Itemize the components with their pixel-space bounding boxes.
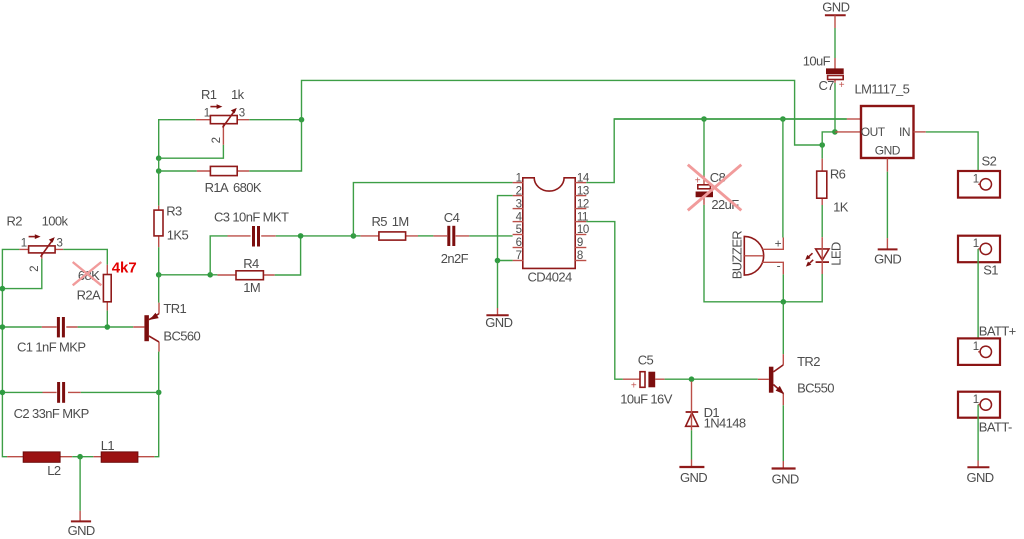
wire R5 stub <box>353 235 360 237</box>
wire R4 right up <box>275 236 301 275</box>
pin 9 stub <box>575 247 586 249</box>
svg-text:GND: GND <box>772 471 799 486</box>
svg-text:+: + <box>631 381 637 392</box>
pin 4 stub <box>513 221 524 223</box>
node junction C3-R4 <box>298 233 304 239</box>
svg-text:3: 3 <box>239 107 245 119</box>
svg-text:C5: C5 <box>638 352 654 367</box>
pin 11 stub <box>575 221 586 223</box>
svg-text:C8: C8 <box>710 170 726 185</box>
ground CD4024 <box>486 308 508 315</box>
svg-text:+: + <box>839 80 845 91</box>
svg-text:1M: 1M <box>243 280 260 295</box>
svg-text:100k: 100k <box>42 214 69 229</box>
wire R2 pin3 to R2A <box>63 249 107 264</box>
wire pin14 to rail <box>586 119 847 183</box>
wire C7 to OUT junction <box>834 83 836 132</box>
node junction R1 pin3 <box>299 117 305 123</box>
svg-text:BC550: BC550 <box>797 381 834 396</box>
node junction LED top <box>819 142 825 148</box>
svg-text:BATT-: BATT- <box>979 419 1012 434</box>
svg-text:BATT+: BATT+ <box>979 324 1016 339</box>
svg-text:R6: R6 <box>830 166 846 181</box>
wire pin7 to ground <box>497 261 499 309</box>
wire LM1117 gnd pin <box>886 158 888 249</box>
svg-text:LM1117_5: LM1117_5 <box>855 82 910 97</box>
wire top rail <box>302 80 823 145</box>
svg-text:2n2F: 2n2F <box>441 251 469 266</box>
node junction C1 left <box>0 324 5 330</box>
node junction R3-TR1 <box>156 272 162 278</box>
wire R5 to C4 <box>418 235 433 237</box>
svg-text:R1A: R1A <box>205 180 229 195</box>
op-amp U1 CD4024 body <box>523 178 575 269</box>
svg-text:1: 1 <box>973 394 979 406</box>
wire R1A right up <box>249 120 301 171</box>
capacitor C5 <box>623 372 665 392</box>
wire left rail to R3 <box>158 158 160 205</box>
wire R1 pin2 branch <box>159 145 224 159</box>
svg-text:680K: 680K <box>233 180 262 195</box>
svg-text:R3: R3 <box>166 204 182 219</box>
svg-text:+: + <box>775 236 782 250</box>
pin 3 stub <box>513 208 524 210</box>
svg-text:GND: GND <box>822 0 849 15</box>
svg-text:CD4024: CD4024 <box>528 270 572 285</box>
pin 10 stub <box>575 234 586 236</box>
svg-text:3: 3 <box>516 198 522 210</box>
transistor TR2 <box>758 354 784 405</box>
inductor L2 <box>7 452 72 462</box>
svg-text:+: + <box>695 175 701 186</box>
svg-text:13: 13 <box>577 185 589 197</box>
svg-text:6: 6 <box>516 237 522 249</box>
wire R6 top <box>821 145 823 159</box>
ground TR2 <box>772 461 796 469</box>
node junction L row <box>77 454 83 460</box>
wire R1 pin1 to left rail <box>159 120 196 159</box>
svg-text:GND: GND <box>875 144 901 158</box>
wire IN pin to S2 <box>914 132 979 184</box>
node junction pin7 <box>495 258 501 264</box>
svg-text:10: 10 <box>577 224 589 236</box>
ground BATT- <box>967 466 989 468</box>
svg-text:5: 5 <box>516 224 522 236</box>
capacitor C1 <box>42 317 78 337</box>
svg-text:4k7: 4k7 <box>112 259 137 276</box>
svg-text:2: 2 <box>211 137 223 143</box>
pin 12 stub <box>575 208 586 210</box>
svg-text:2: 2 <box>516 185 522 197</box>
svg-text:1k: 1k <box>231 87 245 102</box>
resistor R5 <box>360 232 418 240</box>
svg-text:BC560: BC560 <box>163 328 200 343</box>
svg-text:LED: LED <box>829 242 844 266</box>
svg-text:1K: 1K <box>833 200 849 215</box>
resistor R4 <box>217 271 274 280</box>
pin 7 stub <box>513 260 524 262</box>
svg-text:GND: GND <box>485 315 512 330</box>
pin 1 stub <box>513 182 524 184</box>
wire R2 pin2 branch <box>2 259 41 289</box>
pin 14 stub <box>575 182 586 184</box>
wire R2A bottom <box>106 311 108 327</box>
wire LED down to rail <box>821 274 823 302</box>
svg-text:R2: R2 <box>7 214 23 229</box>
svg-text:8: 8 <box>577 250 583 262</box>
node junction buzzer branch <box>780 116 786 122</box>
pin 13 stub <box>575 195 586 197</box>
capacitor C2 <box>43 382 81 403</box>
svg-text:GND: GND <box>680 470 707 485</box>
node junction C2 left <box>0 390 5 396</box>
svg-text:C2 33nF MKP: C2 33nF MKP <box>14 406 89 421</box>
svg-text:BUZZER: BUZZER <box>730 231 745 280</box>
node junction R4 left <box>207 272 213 278</box>
wire S1 to BATT+ <box>977 249 979 352</box>
svg-text:1: 1 <box>973 341 979 353</box>
node junction R2A bottom <box>105 324 111 330</box>
svg-text:1M: 1M <box>392 214 409 229</box>
capacitor C7 <box>826 58 845 91</box>
capacitor C8 <box>695 175 713 205</box>
cross over 68K <box>73 262 102 285</box>
svg-text:-: - <box>777 259 781 273</box>
node junction bottom rail <box>781 299 787 305</box>
svg-text:GND: GND <box>68 523 95 538</box>
wire OUT stub <box>835 131 861 133</box>
voltage regulator U2 LM1117_5 <box>861 106 914 158</box>
node junction pin2 row <box>156 155 162 161</box>
transistor TR1 <box>133 303 159 352</box>
svg-text:R2A: R2A <box>77 288 101 303</box>
svg-text:GND: GND <box>874 251 901 266</box>
wire TR2 collector <box>782 302 784 354</box>
wire C5 to TR2 base <box>665 378 758 380</box>
wire C4 to pin5 <box>469 235 512 237</box>
wire C3 branch up <box>210 236 227 275</box>
pin 8 stub <box>575 260 586 262</box>
wire D1 to ground <box>691 430 693 459</box>
wire pin1 branch <box>353 183 512 236</box>
svg-text:TR2: TR2 <box>797 354 820 369</box>
pin 2 stub <box>513 195 524 197</box>
svg-text:1: 1 <box>21 237 27 249</box>
svg-text:1: 1 <box>516 172 522 184</box>
svg-text:7: 7 <box>516 250 522 262</box>
wire left rail <box>2 249 19 456</box>
inductor L1 <box>93 452 154 462</box>
svg-text:1: 1 <box>973 174 979 186</box>
connector S1 <box>958 236 1000 263</box>
node junction C8 top <box>701 116 707 122</box>
wire BATT- to ground <box>977 405 979 468</box>
wire L row junction <box>72 456 93 458</box>
ground D1 <box>679 460 704 468</box>
svg-text:1K5: 1K5 <box>167 227 189 242</box>
wire OUT bend <box>822 132 835 145</box>
svg-text:OUT: OUT <box>861 125 886 139</box>
pin 6 stub <box>513 247 524 249</box>
node junction OUT <box>832 129 838 135</box>
resistor R6 <box>817 159 827 205</box>
wire pin2 to pin7 gnd <box>498 196 513 261</box>
svg-text:GND: GND <box>967 470 994 485</box>
wire TR1 collector down <box>154 352 158 457</box>
wire C2 row <box>2 391 158 393</box>
node junction R1A left <box>156 168 162 174</box>
svg-text:L2: L2 <box>47 463 61 478</box>
resistor R2A <box>103 265 111 311</box>
svg-text:C1 1nF MKP: C1 1nF MKP <box>17 339 85 354</box>
svg-text:L1: L1 <box>101 438 115 453</box>
svg-text:S1: S1 <box>983 263 998 278</box>
svg-text:C3 10nF MKT: C3 10nF MKT <box>214 209 289 224</box>
wire C3 row right <box>276 235 354 237</box>
wire rail y119 <box>614 118 861 120</box>
wire TR2 emitter to ground <box>782 405 784 461</box>
potentiometer R2 <box>19 234 63 258</box>
ground top C7 <box>825 15 846 28</box>
pin 5 stub <box>513 234 524 236</box>
wire R1 pin3 to top <box>249 119 301 121</box>
svg-text:1N4148: 1N4148 <box>704 416 746 431</box>
resistor R3 <box>154 206 163 248</box>
ground L row <box>71 511 91 522</box>
node junction C2 right <box>156 390 162 396</box>
svg-text:TR1: TR1 <box>163 301 186 316</box>
svg-text:R5: R5 <box>372 214 388 229</box>
svg-text:1: 1 <box>204 107 210 119</box>
wire C8 branch <box>704 119 822 302</box>
svg-text:4: 4 <box>516 211 523 223</box>
wire R4 stub left <box>210 274 217 276</box>
svg-text:C4: C4 <box>444 210 460 225</box>
wire buzzer minus down <box>782 274 784 301</box>
wire L row to ground <box>79 457 81 511</box>
connector BATT- <box>958 392 1000 418</box>
capacitor C4 <box>433 226 469 246</box>
connector BATT+ <box>958 338 1000 365</box>
cross over C8 <box>688 165 742 211</box>
wire emitter row right <box>159 274 211 276</box>
svg-text:C7: C7 <box>819 78 835 93</box>
node junction D1 top <box>689 376 695 382</box>
svg-text:1: 1 <box>973 238 979 250</box>
svg-text:R1: R1 <box>201 87 217 102</box>
svg-text:S2: S2 <box>982 154 997 169</box>
svg-text:12: 12 <box>577 198 589 210</box>
connector S2 <box>958 171 1000 198</box>
capacitor C3 <box>228 226 276 247</box>
wire pin11 down <box>586 222 623 380</box>
svg-text:IN: IN <box>899 125 910 139</box>
svg-text:10uF: 10uF <box>803 54 831 69</box>
node junction left-pin2 <box>0 286 5 292</box>
resistor R1A <box>197 166 250 175</box>
svg-text:3: 3 <box>57 237 63 249</box>
buzzer BUZZER <box>744 236 783 275</box>
node junction pin1 branch <box>351 233 357 239</box>
wire R6 to LED <box>821 205 823 237</box>
svg-text:10uF 16V: 10uF 16V <box>620 391 673 406</box>
wire buzzer plus branch <box>782 119 784 238</box>
ground LM1117 <box>878 248 898 250</box>
potentiometer R1 <box>196 104 250 145</box>
diode D1 <box>686 382 699 431</box>
wire R3 bottom to emitter row <box>158 247 160 275</box>
wire gnd to C7 <box>834 28 836 58</box>
wire C1 row <box>2 326 133 328</box>
svg-text:2: 2 <box>29 266 41 272</box>
LED diode <box>805 237 829 274</box>
svg-text:9: 9 <box>577 237 583 249</box>
wire TR1 emitter <box>158 275 160 303</box>
svg-text:R4: R4 <box>243 256 259 271</box>
wire R1A left <box>159 170 197 172</box>
